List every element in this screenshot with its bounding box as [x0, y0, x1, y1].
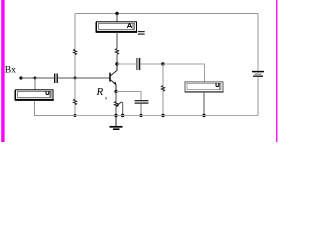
battery GB1 [252, 72, 264, 77]
ground [110, 116, 123, 130]
svg-text:Вх: Вх [5, 64, 16, 75]
wire: R2 to bottom rail [74, 105, 76, 116]
ammeter PA1 box [96, 22, 137, 33]
wire: C1 to base [58, 77, 110, 79]
voltmeter PV1 box (input) [15, 90, 54, 101]
wire: ammeter to R3 [116, 32, 118, 49]
emitter lead [111, 80, 117, 85]
wire: R5 to bottom rail [162, 91, 164, 115]
resistor R1 (upper bias, zigzag) [73, 49, 76, 55]
node: collector / output [115, 62, 118, 65]
capacitor C3 (emitter bypass) [135, 101, 149, 103]
wire: left rail between R1 and base node [74, 55, 76, 78]
node: top rail junction to ammeter [115, 12, 118, 15]
svg-text:R: R [96, 86, 104, 98]
wire: top junction down to ammeter [116, 14, 118, 23]
wire: R3 to collector node [116, 54, 118, 64]
emitter arrowhead [114, 82, 117, 85]
wire: input terminal to V-meter junction [21, 77, 35, 79]
node: R2 at bottom rail [74, 114, 77, 117]
input terminal dot [19, 76, 22, 79]
node: wiper on rail [121, 114, 124, 117]
wire: C2 to load node [140, 63, 163, 65]
wire: battery to bottom rail [257, 77, 259, 115]
wire: junction to C1 [35, 77, 54, 79]
potentiometer Rэ (emitter trimmer zigzag) [114, 102, 117, 107]
node: V-meter tap [34, 77, 37, 80]
capacitor C1 (input coupling) [55, 74, 58, 84]
wire: emitter node to bypass cap [116, 92, 141, 101]
wire: top supply rail [75, 13, 258, 15]
node: emitter [114, 90, 117, 93]
node: bypass cap on rail [139, 114, 142, 117]
right magenta margin line [276, 0, 277, 142]
wire: load node down to R5 [162, 64, 164, 86]
node: pot bottom on rail [114, 114, 117, 117]
wire: U-meter to bottom rail [203, 93, 205, 116]
resistor R2 (lower bias, zigzag) [73, 99, 76, 105]
transistor VT1 [110, 64, 117, 92]
wire: bypass cap to rail [140, 104, 142, 116]
wire: collector node to C2 [117, 63, 136, 65]
capacitor C2 (output coupling) [137, 58, 140, 70]
voltmeter PV2 box (output U) [185, 82, 224, 92]
wiper arrow of pot [116, 102, 122, 116]
wire: right rail from top corner to battery [257, 14, 259, 71]
node: output load junction [161, 62, 164, 65]
wire: emitter node to pot [115, 92, 117, 102]
label: = (DC) next to ammeter [138, 32, 145, 34]
wire: left vertical rail upper (top corner to R1) [74, 14, 76, 50]
node: U-meter on rail [202, 114, 205, 117]
node: R5 on rail [161, 114, 164, 117]
wire: left rail base node down to R2 [74, 78, 76, 99]
emitter to node [115, 84, 117, 91]
resistor R5 (load, zigzag) [161, 86, 164, 92]
wire: V-meter drop [34, 78, 36, 90]
resistor R3 (collector load, zigzag) [115, 49, 118, 55]
node: base bias junction [74, 77, 77, 80]
wire: V-meter to bottom rail [35, 101, 76, 116]
base bar [109, 73, 111, 82]
label: R_э [96, 86, 108, 102]
collector lead [111, 64, 118, 76]
left magenta margin bar [1, 0, 4, 142]
wire: bottom common rail [75, 115, 258, 117]
wire: pot to bottom rail [115, 107, 117, 116]
wire: load node to U-meter corner [163, 64, 205, 82]
